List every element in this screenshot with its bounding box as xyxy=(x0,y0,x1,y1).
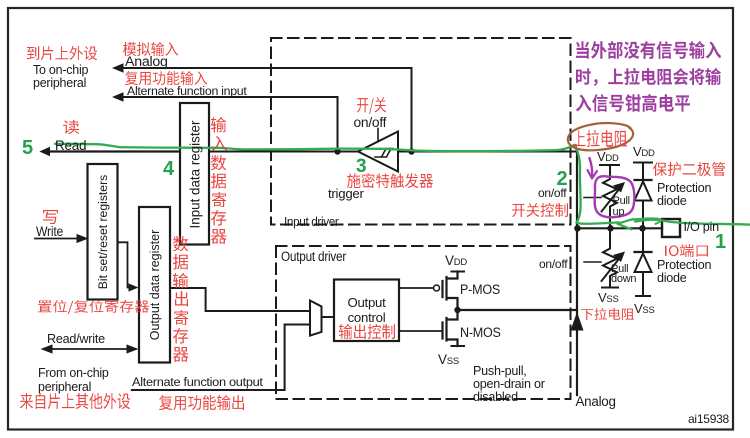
text To on-chip peripheral xyxy=(33,63,88,90)
node pin-line junction at x575 xyxy=(574,225,581,232)
VSS bar N-MOS xyxy=(452,345,465,347)
note purple line2 xyxy=(576,68,721,86)
label 开关控制 xyxy=(512,203,568,217)
register box ODR xyxy=(139,207,170,363)
wire alternate function input horizontal xyxy=(119,96,338,98)
text VDD P-MOS xyxy=(445,254,467,268)
text Alternate function output xyxy=(132,376,263,389)
label 输入数据寄存器 (vertical) xyxy=(211,117,226,133)
wire on/off stub pull-up xyxy=(584,197,601,199)
node junction analog xyxy=(408,148,414,154)
label 来自片上其他外设 xyxy=(20,393,130,409)
label 读 xyxy=(63,120,79,134)
node diode junction xyxy=(639,225,646,232)
wire analog input horizontal xyxy=(119,67,412,69)
label 保护二极管 xyxy=(653,162,725,176)
text Push-pull open-drain disabled xyxy=(473,365,545,405)
green handwritten annotation line xyxy=(55,144,619,224)
label 施密特触发器 xyxy=(347,173,433,188)
text Read/write xyxy=(47,332,105,346)
wire diode D2 to VSS xyxy=(642,272,644,296)
label 模拟输入 xyxy=(123,42,178,56)
arrowhead read/write left xyxy=(41,344,53,353)
text Write xyxy=(36,225,63,239)
green arrowhead annotation xyxy=(618,219,634,229)
arrowhead BSRR to ODR xyxy=(129,283,139,291)
wire gate N-MOS xyxy=(399,330,442,332)
wire on/off stub pull-down xyxy=(584,261,601,263)
wire read/write double arrow xyxy=(47,348,132,350)
wire ODR to mux xyxy=(170,288,310,311)
text Pull down xyxy=(611,264,636,285)
I/O pin pad xyxy=(662,219,680,237)
wire output stage to pin net xyxy=(458,309,578,311)
text N-MOS xyxy=(460,326,501,340)
label IO端口 xyxy=(665,244,708,257)
wire diode bottom lead xyxy=(642,228,644,252)
text Alternate function input xyxy=(127,85,247,98)
protection diode D2 xyxy=(635,254,652,273)
text Protection diode bottom xyxy=(657,259,711,285)
text on/off pull-down xyxy=(539,258,567,271)
text VSS N-MOS xyxy=(438,353,459,367)
text ai15938 xyxy=(688,413,729,426)
VDD bar protection diode top xyxy=(634,162,652,164)
pull-up arrowhead xyxy=(613,182,625,193)
schmitt trigger U1 xyxy=(358,132,398,172)
arrowhead up on analog vertical (annotation) xyxy=(571,312,584,331)
wire write arrow xyxy=(35,238,78,240)
wire BSRR to ODR xyxy=(118,242,132,287)
arrowhead write xyxy=(77,234,89,243)
register box BSRR xyxy=(88,164,118,300)
text From on-chip peripheral xyxy=(38,366,109,393)
node output junction xyxy=(454,307,460,313)
wire alternate function output xyxy=(132,325,310,391)
output control box xyxy=(334,280,399,342)
text Read xyxy=(55,139,86,153)
resistor pull-up xyxy=(603,165,617,228)
pull-down variable arrow xyxy=(602,258,621,282)
label 到片上外设 xyxy=(27,46,97,60)
wire diode top lead xyxy=(642,163,644,181)
label 复用功能输出 xyxy=(159,395,244,410)
text Pull up xyxy=(613,196,630,217)
transistor P-MOS Q1 xyxy=(443,272,458,311)
wire alternate function input vertical xyxy=(337,97,339,152)
node pull junction xyxy=(607,225,614,232)
transistor N-MOS Q2 xyxy=(443,310,458,346)
wire analog input vertical xyxy=(411,68,413,152)
label 数据输出寄存器 (vertical) xyxy=(173,236,188,252)
node junction alt-func-input xyxy=(334,148,340,154)
text Analog (top) xyxy=(125,55,168,70)
text on/off pull-up xyxy=(538,187,566,200)
text VDD pull-up xyxy=(597,150,619,164)
label 写 xyxy=(43,210,58,224)
label 开/关 xyxy=(357,97,386,114)
text Output control xyxy=(334,295,399,326)
text I/O pin xyxy=(684,221,719,234)
P-MOS gate bubble xyxy=(434,285,440,291)
green number 1 xyxy=(715,231,726,254)
brown hand-drawn ellipse around 上拉电阻 xyxy=(568,123,633,150)
text VSS pull-down xyxy=(598,291,619,305)
VDD bar pull-up xyxy=(600,164,619,166)
pull-up variable arrow xyxy=(602,188,621,212)
purple hand-drawn circle around pull-up xyxy=(595,176,635,217)
text Analog bottom xyxy=(576,395,616,409)
green line to pin and off right edge xyxy=(635,220,750,225)
green number 5 xyxy=(22,137,33,160)
green number 2 xyxy=(557,168,568,191)
green number 4 xyxy=(163,158,174,181)
label 上拉电阻 xyxy=(573,130,627,147)
protection diode D1 xyxy=(635,182,652,201)
text Output driver xyxy=(281,250,346,264)
VSS bar pull-down xyxy=(602,287,618,289)
purple hand-drawn arrow xyxy=(590,158,593,176)
wire read line IDR to trigger xyxy=(209,151,358,153)
label 输出控制 xyxy=(339,324,395,339)
label 置位/复位寄存器 xyxy=(38,300,149,314)
text VDD diode xyxy=(633,145,655,159)
wire diode to pin line xyxy=(642,201,644,229)
trigger hysteresis glyph xyxy=(375,149,393,158)
input driver dashed box xyxy=(271,38,571,225)
text VSS diode xyxy=(634,302,655,316)
wire main pin line xyxy=(577,227,662,229)
protection diode D1 cathode bar xyxy=(635,179,652,181)
arrowhead alternate function input xyxy=(112,92,124,102)
text on/off (trigger) xyxy=(354,116,387,130)
label 复用功能输入 xyxy=(125,71,207,85)
green number 3 xyxy=(356,156,367,178)
protection diode D2 cathode bar xyxy=(635,251,652,253)
text trigger xyxy=(328,187,364,201)
rotated label Output data register xyxy=(148,221,162,349)
wire trigger to corner xyxy=(398,151,577,153)
label 下拉电阻 xyxy=(581,308,634,320)
note purple line1 xyxy=(576,41,721,59)
arrowhead analog input xyxy=(112,63,124,73)
text Input driver xyxy=(284,215,338,228)
text Protection diode top xyxy=(657,182,711,208)
rotated label Bit set/reset registers xyxy=(96,163,110,301)
trigger on/off stub xyxy=(377,129,379,142)
rotated label Input data register xyxy=(187,118,202,232)
arrowhead read xyxy=(39,147,50,156)
green small curl at pin xyxy=(631,218,660,223)
pull-down arrowhead xyxy=(613,252,625,263)
text P-MOS xyxy=(460,283,500,297)
VDD bar P-MOS xyxy=(452,271,465,273)
wire read line left xyxy=(46,150,180,152)
register box IDR xyxy=(180,103,209,245)
wire gate P-MOS xyxy=(399,287,433,289)
VSS bar diode D2 xyxy=(636,295,650,297)
arrowhead read/write right xyxy=(127,344,139,353)
mux selector xyxy=(310,301,322,336)
purple arrowhead xyxy=(588,170,598,179)
note purple line3 xyxy=(576,94,690,112)
wire mux to output control xyxy=(322,316,335,318)
resistor pull-down xyxy=(603,228,617,288)
output driver dashed box xyxy=(276,246,571,399)
wire vertical to pin line and analog bottom xyxy=(576,152,578,396)
